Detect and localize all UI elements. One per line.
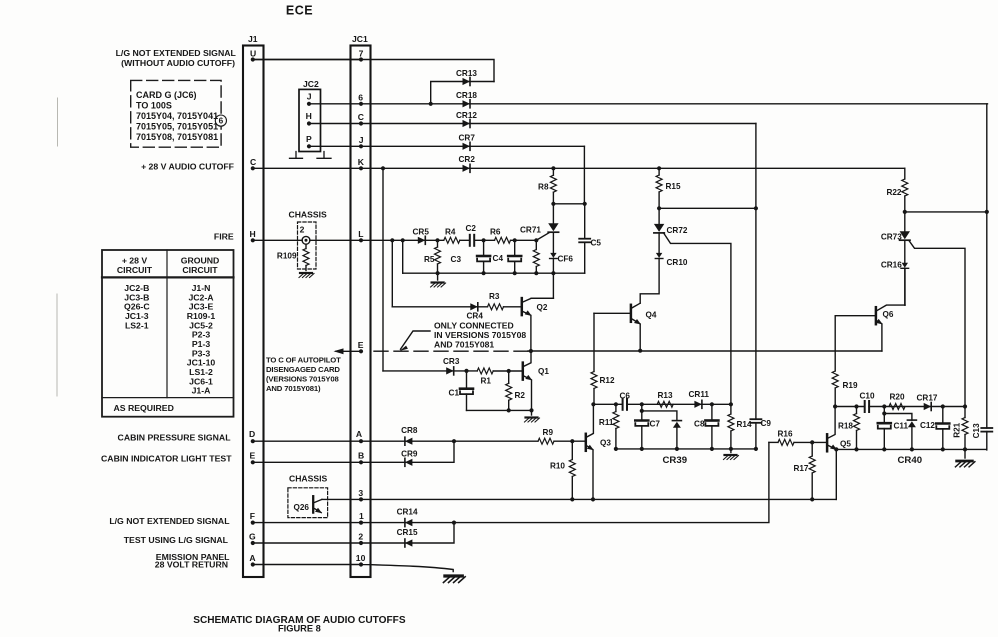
wire CR12 vertical to C9 (755, 124, 757, 449)
resistor R8 (552, 168, 554, 175)
svg-text:CR4: CR4 (467, 312, 484, 321)
svg-text:CARD G (JC6): CARD G (JC6) (136, 90, 197, 100)
svg-text:Q5: Q5 (840, 440, 851, 449)
junction cap bus2b (834, 447, 838, 451)
svg-text:CR73: CR73 (881, 233, 902, 242)
junction row 3 (359, 497, 363, 501)
resistor R18 (856, 407, 858, 414)
wire CF6 to Q2 collector (531, 259, 553, 299)
svg-text:C13: C13 (972, 423, 981, 438)
svg-text:E: E (250, 451, 256, 461)
svg-text:28 VOLT RETURN: 28 VOLT RETURN (155, 560, 228, 570)
svg-text:CR13: CR13 (456, 69, 477, 78)
svg-text:+ 28 V: + 28 V (122, 256, 148, 266)
capacitor C9 (750, 419, 761, 423)
transistor Q1 (522, 363, 525, 380)
wire node2 row (C10/R20/CR17) (835, 406, 965, 408)
capacitor C2 (470, 235, 474, 246)
svg-text:J: J (359, 135, 364, 145)
svg-text:DISENGAGED CARD: DISENGAGED CARD (266, 365, 340, 374)
wire C1/R2 bottom row (467, 409, 532, 411)
capacitor C3 (483, 240, 485, 254)
svg-text:10: 10 (356, 553, 366, 563)
svg-text:GROUND: GROUND (181, 256, 220, 266)
resistor R15 (658, 168, 660, 175)
svg-text:P: P (306, 134, 312, 144)
leader arrow to ONLY CONNECTED note (401, 331, 431, 349)
svg-text:D: D (249, 429, 255, 439)
diode CR72 (658, 208, 660, 224)
junction row U/pin7 (251, 57, 255, 61)
svg-text:CR7: CR7 (459, 134, 476, 143)
svg-text:FIGURE 8: FIGURE 8 (278, 624, 321, 634)
diode CR39 (672, 421, 681, 428)
svg-text:1: 1 (359, 511, 364, 521)
wire ground bus2 (616, 448, 756, 450)
svg-text:2: 2 (358, 532, 363, 542)
wire R8/C5 row (553, 203, 584, 205)
svg-text:R9: R9 (543, 428, 554, 437)
junction row F/CR14 (251, 521, 255, 525)
resistor R16 (769, 441, 778, 443)
diode CR40 branch (884, 414, 912, 421)
junction node2 row (833, 404, 837, 408)
wire row 3 (Q26 collector to Q5 emitter net) (322, 498, 836, 500)
ground below R21 (964, 449, 966, 458)
svg-text:JC1: JC1 (352, 34, 368, 44)
svg-text:TEST USING L/G SIGNAL: TEST USING L/G SIGNAL (124, 535, 229, 545)
svg-text:CIRCUIT: CIRCUIT (182, 265, 218, 275)
junction row J/CR7 (307, 144, 311, 148)
wire row 6 / CR18 (309, 103, 988, 105)
svg-text:C2: C2 (466, 224, 477, 233)
svg-text:R14: R14 (737, 420, 752, 429)
svg-text:C1: C1 (449, 389, 460, 398)
diode CF6 (552, 232, 554, 253)
junction row E (359, 349, 363, 353)
svg-text:CR16: CR16 (881, 261, 902, 270)
svg-text:C10: C10 (860, 392, 875, 401)
svg-text:K: K (358, 157, 365, 167)
wire row K / CR2 (253, 167, 905, 169)
svg-text:CR5: CR5 (413, 228, 430, 237)
resistor R4 (444, 237, 460, 243)
ground below R5 (437, 273, 439, 280)
resistor R3 (488, 304, 504, 310)
wire L-row to bus vertical (402, 240, 404, 273)
resistor R2 (508, 371, 510, 383)
svg-text:R8: R8 (538, 183, 549, 192)
svg-text:R2: R2 (515, 391, 526, 400)
svg-text:LS2-1: LS2-1 (125, 320, 149, 330)
wire row J / CR7 (309, 145, 584, 147)
svg-text:Q3: Q3 (600, 439, 611, 448)
wire row C / CR12 (309, 123, 756, 125)
wire ground bus1 (403, 272, 585, 274)
wire node1 row (C6/R13/CR11) (593, 403, 731, 405)
wire Q6 collector vertical (904, 268, 906, 305)
svg-text:CR14: CR14 (397, 508, 418, 517)
svg-text:L/G NOT EXTENDED SIGNAL: L/G NOT EXTENDED SIGNAL (109, 516, 230, 526)
wire row 10 to ground (253, 565, 453, 572)
junction node1 row (591, 402, 595, 406)
svg-text:R20: R20 (890, 393, 905, 402)
svg-text:CF6: CF6 (558, 255, 574, 264)
svg-text:CHASSIS: CHASSIS (289, 210, 327, 220)
wire L-row to CR4 vertical (391, 240, 393, 306)
wire row B / CABIN INDICATOR (253, 441, 454, 462)
svg-text:CR15: CR15 (397, 528, 418, 537)
svg-text:7015Y04, 7015Y041: 7015Y04, 7015Y041 (136, 111, 218, 121)
capacitor C6 (623, 399, 627, 410)
svg-text:C6: C6 (620, 392, 631, 401)
wire cap bottom bus2b (836, 448, 987, 450)
svg-text:R15: R15 (666, 182, 681, 191)
junction CR39 branch (640, 409, 644, 413)
wire far-right vertical to C13 (986, 104, 988, 450)
junction row K/CR2 (251, 166, 255, 170)
svg-text:R17: R17 (793, 464, 808, 473)
capacitor C11 (883, 407, 885, 422)
svg-text:ONLY CONNECTED: ONLY CONNECTED (434, 321, 514, 331)
svg-text:R21: R21 (953, 422, 962, 437)
svg-text:C12: C12 (920, 421, 935, 430)
svg-text:IN VERSIONS 7015Y08: IN VERSIONS 7015Y08 (434, 330, 526, 340)
junction R17 top (810, 440, 814, 444)
svg-text:Q26: Q26 (294, 503, 310, 512)
svg-text:R22: R22 (886, 188, 901, 197)
svg-text:R3: R3 (489, 292, 500, 301)
svg-text:C11: C11 (894, 422, 909, 431)
svg-text:7015Y08, 7015Y081: 7015Y08, 7015Y081 (136, 132, 218, 142)
junction R8/C5 node (551, 202, 555, 206)
diode CR8 (405, 437, 413, 445)
svg-text:JC2: JC2 (303, 79, 319, 89)
svg-text:U: U (250, 49, 256, 59)
wire CR73 bent lead (909, 241, 965, 407)
svg-text:6: 6 (219, 117, 224, 126)
connector JC2 (299, 89, 321, 151)
svg-text:R6: R6 (490, 228, 501, 237)
svg-text:CR40: CR40 (898, 455, 923, 466)
svg-text:L/G NOT EXTENDED SIGNAL: L/G NOT EXTENDED SIGNAL (116, 48, 237, 58)
svg-text:TO C OF AUTOPILOT: TO C OF AUTOPILOT (266, 356, 341, 365)
diode CR73 (904, 212, 906, 231)
wire row H / FIRE (253, 239, 537, 241)
diode CR7 (463, 142, 471, 150)
resistor R9 (538, 438, 554, 444)
svg-text:C5: C5 (591, 239, 602, 248)
junction row 10 (251, 562, 255, 566)
junction C1/R2 bottom (507, 408, 511, 412)
svg-text:C8: C8 (694, 420, 705, 429)
transistor Q3 (585, 434, 588, 451)
resistor R10 (571, 441, 573, 459)
capacitor C1 (466, 371, 468, 411)
wire row E solid to Q6 emitter (528, 350, 882, 352)
diode CR71 (552, 204, 554, 223)
diode CR13 (463, 78, 471, 86)
svg-text:C: C (358, 112, 364, 122)
svg-text:CABIN PRESSURE SIGNAL: CABIN PRESSURE SIGNAL (118, 433, 232, 443)
diode CR17 (924, 403, 932, 411)
svg-text:J1-A: J1-A (192, 386, 212, 396)
svg-text:A: A (249, 553, 255, 563)
svg-text:CR12: CR12 (456, 111, 477, 120)
junction R15 bottom row (657, 206, 661, 210)
svg-text:C7: C7 (650, 420, 661, 429)
wire row G / CR15 (253, 523, 454, 543)
ground row 10 (443, 576, 465, 583)
svg-text:E: E (358, 340, 364, 350)
svg-text:CR9: CR9 (401, 450, 418, 459)
wire row F / CR14 / L G NOT EXTENDED (253, 442, 769, 522)
capacitor C13 (981, 428, 992, 432)
junction row 6/CR18 (307, 102, 311, 106)
svg-text:CR39: CR39 (663, 455, 688, 466)
resistor R12 (593, 313, 595, 371)
card G dashed note box (131, 80, 221, 147)
resistor R17 (811, 442, 813, 456)
svg-text:A: A (356, 429, 362, 439)
diode CR11 (694, 400, 702, 408)
svg-text:R4: R4 (445, 228, 456, 237)
svg-text:R19: R19 (843, 381, 858, 390)
junction row A/CR8 (251, 439, 255, 443)
resistor unlabeled by CF6 (535, 240, 537, 249)
connector J1 (243, 46, 264, 578)
svg-text:H: H (250, 229, 256, 239)
capacitor C5 (584, 204, 586, 273)
svg-text:C3: C3 (451, 255, 462, 264)
junction ground bus1 (436, 271, 440, 275)
transistor Q4 (630, 305, 633, 322)
svg-text:Q6: Q6 (883, 310, 894, 319)
ground below bus2 (730, 449, 732, 453)
svg-text:CR18: CR18 (456, 91, 477, 100)
wire J1 U to JC1 7 (overlap main) (253, 59, 361, 61)
svg-text:CR17: CR17 (917, 394, 938, 403)
svg-text:(WITHOUT AUDIO CUTOFF): (WITHOUT AUDIO CUTOFF) (121, 58, 235, 68)
svg-text:R18: R18 (838, 422, 853, 431)
svg-text:C9: C9 (761, 419, 772, 428)
svg-text:R12: R12 (600, 376, 615, 385)
wire K junction vertical to CR3 row (382, 168, 384, 371)
svg-text:B: B (358, 451, 364, 461)
svg-text:H: H (306, 111, 312, 121)
capacitor C10 (865, 401, 869, 412)
svg-text:R1: R1 (481, 377, 492, 386)
capacitor C8 (711, 404, 713, 419)
resistor R5 (437, 240, 439, 247)
svg-text:R109: R109 (277, 252, 297, 261)
svg-text:2: 2 (300, 225, 305, 235)
junction ground bus2 (614, 447, 618, 451)
svg-text:C4: C4 (493, 254, 504, 263)
wire row E arrow to autopilot card (336, 350, 361, 352)
junction row H/FIRE (251, 238, 255, 242)
wire row A / CABIN PRESSURE (253, 440, 585, 442)
diode CR3 (446, 367, 454, 375)
svg-text:CABIN INDICATOR LIGHT TEST: CABIN INDICATOR LIGHT TEST (101, 454, 232, 464)
capacitor C4 (514, 240, 516, 254)
svg-text:Q1: Q1 (538, 367, 549, 376)
junction row G/CR15 (251, 541, 255, 545)
svg-text:CR10: CR10 (667, 258, 688, 267)
svg-text:CHASSIS: CHASSIS (289, 474, 327, 484)
svg-text:AS REQUIRED: AS REQUIRED (114, 403, 174, 413)
wire CR7 vertical (583, 146, 585, 204)
transistor Q2 (521, 298, 524, 315)
wire CR13 row (431, 82, 494, 104)
diode CR4 (470, 303, 478, 311)
svg-text:7: 7 (359, 49, 364, 59)
svg-text:AND 7015Y081): AND 7015Y081) (266, 384, 321, 393)
resistor R14 (730, 404, 732, 414)
svg-text:(VERSIONS 7015Y08: (VERSIONS 7015Y08 (266, 375, 340, 384)
svg-text:J1: J1 (248, 34, 258, 44)
svg-text:R13: R13 (658, 391, 673, 400)
diode CR10 (658, 233, 660, 253)
transistor Q6 (875, 307, 878, 324)
svg-text:L: L (358, 229, 363, 239)
svg-text:J: J (307, 92, 312, 102)
svg-text:R11: R11 (599, 418, 614, 427)
diode CR15 (405, 539, 413, 547)
diode CR16 (901, 263, 909, 269)
svg-text:3: 3 (358, 488, 363, 498)
diode CR14 (405, 519, 413, 527)
wire CR4 row (392, 306, 521, 308)
diode CR12 (463, 120, 471, 128)
resistor R1 (477, 368, 493, 374)
svg-text:R10: R10 (550, 462, 565, 471)
junction row B/CR9 (251, 460, 255, 464)
ground below Q1 (531, 410, 533, 415)
wire CR39 branch (642, 404, 677, 420)
svg-text:CR71: CR71 (520, 226, 541, 235)
svg-text:C: C (250, 157, 256, 167)
svg-text:Q4: Q4 (646, 311, 657, 320)
svg-text:TO 100S: TO 100S (136, 101, 172, 111)
svg-text:CR8: CR8 (401, 426, 418, 435)
resistor R22 (904, 168, 906, 179)
resistor R6 (495, 237, 511, 243)
transistor Q5 (826, 434, 829, 451)
svg-text:6: 6 (358, 92, 363, 102)
svg-text:7015Y05, 7015Y051: 7015Y05, 7015Y051 (136, 122, 218, 132)
capacitor C12 (942, 407, 944, 423)
svg-text:CIRCUIT: CIRCUIT (117, 265, 153, 275)
resistor R13 (657, 401, 673, 407)
transistor Q26 (312, 496, 314, 512)
svg-text:Q2: Q2 (537, 303, 548, 312)
resistor R21 (964, 407, 966, 418)
svg-text:CR2: CR2 (459, 155, 476, 164)
svg-text:F: F (250, 511, 255, 521)
wire R22 junction row (905, 211, 987, 213)
wire row E dashed (only connected versions) (374, 350, 528, 352)
svg-text:ECE: ECE (286, 4, 313, 18)
wire row U/pin7 (253, 60, 494, 82)
wire R15 bottom row (659, 207, 756, 209)
diode CR18 (463, 100, 471, 108)
capacitor C7 (641, 411, 643, 419)
diode CR2 (463, 164, 471, 172)
chassis feed-through 2 / R109 (302, 236, 310, 244)
wire CR71 bent lead (536, 233, 549, 241)
svg-text:AND 7015Y081: AND 7015Y081 (434, 340, 494, 350)
wire CR10 to Q4 collector (640, 259, 659, 304)
svg-text:CR11: CR11 (689, 390, 710, 399)
diode CR9 (405, 458, 413, 466)
junction R22 row (903, 210, 907, 214)
svg-text:G: G (249, 532, 256, 542)
svg-text:CR72: CR72 (667, 226, 688, 235)
junction row C/CR12 (307, 121, 311, 125)
svg-text:+ 28 V AUDIO CUTOFF: + 28 V AUDIO CUTOFF (141, 162, 234, 172)
svg-text:CR3: CR3 (443, 357, 460, 366)
resistor R19 (Q6 base feed) (834, 316, 836, 371)
JC2 mounting feet (290, 152, 332, 159)
connector JC1 (351, 46, 371, 578)
wire CR72 bent lead (664, 233, 731, 404)
diode CR5 (418, 236, 426, 244)
junction CR3 row (464, 369, 468, 373)
resistor R20 (889, 404, 905, 410)
svg-text:FIRE: FIRE (214, 232, 234, 242)
wire CR3 row (383, 370, 522, 372)
resistor R11 (615, 404, 617, 411)
svg-text:R16: R16 (778, 430, 793, 439)
chassis box Q26 (288, 488, 328, 518)
svg-text:R5: R5 (424, 255, 435, 264)
fold artifact lines (56, 98, 59, 396)
circuit table (102, 250, 234, 417)
